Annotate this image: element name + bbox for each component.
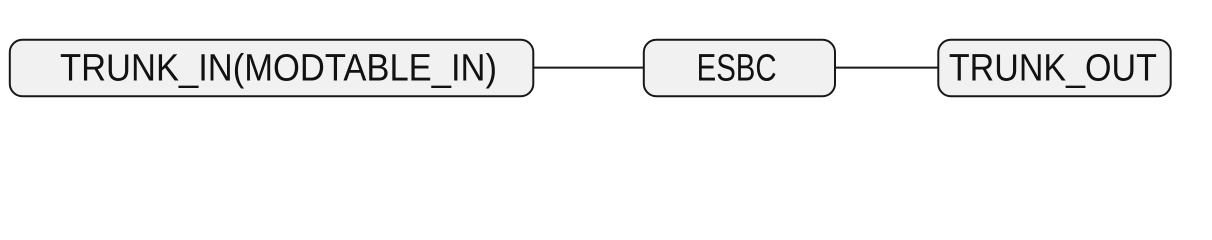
node TRUNK_IN(MODTABLE_IN): [10, 40, 534, 96]
svg-text:ESBC: ESBC: [697, 48, 777, 90]
wire edge2: [835, 67, 938, 69]
svg-text:TRUNK_OUT: TRUNK_OUT: [949, 48, 1157, 90]
svg-text:TRUNK_IN(MODTABLE_IN): TRUNK_IN(MODTABLE_IN): [60, 48, 497, 90]
node TRUNK_OUT: [938, 40, 1170, 96]
wire edge1: [533, 67, 644, 69]
node ESBC: [644, 40, 835, 96]
